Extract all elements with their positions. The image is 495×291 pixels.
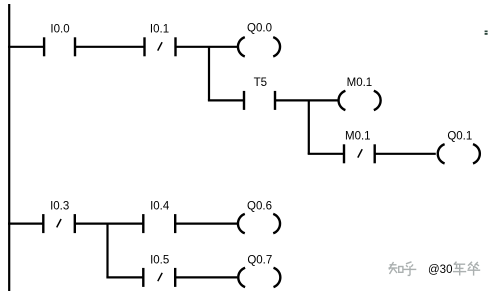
watermark: 知乎 @30年华 [389,262,481,276]
svg-text:I0.1: I0.1 [150,23,169,35]
contact I0.5 (NC) [143,268,175,287]
svg-text:Q0.7: Q0.7 [247,255,272,267]
wire T5 to coil M0.1 [275,99,338,101]
wire I0.1 to coil Q0.0 [176,46,238,48]
coil Q0.1 [438,144,480,163]
svg-text:I0.3: I0.3 [50,201,69,213]
glyph 年 [453,262,466,276]
svg-text:I0.5: I0.5 [150,255,169,267]
wire J1 to T5 [208,99,244,101]
wire I0.4 to coil Q0.6 [175,223,237,225]
wire rail to I0.3 [8,223,43,225]
coil Q0.6 [238,214,280,233]
svg-text:I0.4: I0.4 [150,201,170,213]
wire rail to I0.0 [8,46,44,48]
svg-text:T5: T5 [254,77,267,89]
branch wire down from rung 2 (junction J3) [106,224,108,278]
left power rail [8,4,10,291]
wire I0.3 to I0.4 (through junction J3) [75,223,143,225]
wire J2 to M0.1 contact [308,153,344,155]
branch wire down from T5 rung (junction J2) [308,100,310,153]
wire J3 to I0.5 [106,276,143,278]
contact I0.3 (NC) [43,214,75,233]
svg-text:Q0.0: Q0.0 [247,23,272,35]
coil Q0.7 [238,268,280,287]
wire M0.1 contact to coil Q0.1 [375,153,436,155]
glyph 知 [389,262,403,274]
svg-text:Q0.6: Q0.6 [247,201,272,213]
svg-text:M0.1: M0.1 [345,131,371,143]
branch wire down from rung 1 (junction J1) [208,47,210,101]
contact I0.1 (NC) [145,37,176,56]
wire I0.0 to I0.1 [75,46,145,48]
contact I0.0 (NO) [44,37,75,56]
contact M0.1 (NC) [344,144,375,163]
svg-text:M0.1: M0.1 [347,77,373,89]
contact T5 (NO) [244,91,275,110]
small green marker (top right) [485,31,488,35]
glyph 华 [467,262,480,276]
svg-text:I0.0: I0.0 [50,23,69,35]
wire I0.5 to coil Q0.7 [175,276,237,278]
svg-text:@30: @30 [428,264,452,276]
svg-text:Q0.1: Q0.1 [447,130,472,142]
coil Q0.0 [238,37,280,56]
glyph 乎 [404,262,417,276]
contact I0.4 (NO) [143,214,175,233]
coil M0.1 [339,91,381,110]
